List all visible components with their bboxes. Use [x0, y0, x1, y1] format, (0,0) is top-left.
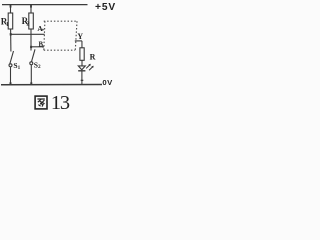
svg-text:0V: 0V	[102, 78, 113, 87]
LED emission arrow 2	[89, 66, 94, 71]
wire R2 bottom down to switch S2	[30, 29, 32, 51]
node junction LED-rail tick	[81, 80, 84, 81]
svg-text:+5V: +5V	[95, 2, 116, 13]
wire stub R1 to rail	[10, 5, 12, 13]
wire R1 bottom down to switch S1	[10, 29, 12, 52]
resistor R1	[8, 13, 13, 29]
wire S1 to bottom rail	[10, 67, 12, 85]
wire top +5V rail	[2, 4, 88, 6]
svg-text:B: B	[39, 42, 44, 49]
wire S2 to bottom rail	[30, 65, 32, 85]
node junction R2-rail	[30, 5, 32, 8]
node junction S2-rail	[30, 82, 32, 85]
LED emission arrow 1	[86, 64, 91, 69]
resistor R2	[29, 13, 34, 29]
switch S2 pivot circle	[30, 62, 33, 65]
wire R bottom to LED	[81, 60, 83, 66]
node junction S1-rail	[10, 82, 12, 85]
wire LED to bottom rail	[81, 72, 83, 85]
node junction A-branch on R1 wire	[10, 33, 12, 35]
svg-text:A: A	[37, 24, 43, 33]
wire stub R2 to rail	[30, 5, 32, 13]
svg-text:1: 1	[6, 21, 9, 28]
svg-text:2: 2	[38, 64, 41, 70]
svg-text:2: 2	[26, 21, 29, 28]
wire node A branch horizontal	[11, 33, 45, 35]
svg-text:1: 1	[18, 65, 21, 71]
switch S2 blade	[32, 49, 36, 61]
LED cathode bar	[78, 70, 85, 72]
wire bottom 0V rail	[1, 84, 102, 86]
svg-text:R: R	[90, 53, 96, 62]
black box dashed rectangle	[44, 21, 77, 50]
node B terminal dot	[42, 46, 44, 48]
node junction B-branch on R2 wire	[30, 46, 32, 48]
wire output Y vertical down to resistor R	[81, 41, 83, 48]
node junction R1-rail	[10, 5, 12, 8]
LED D1 triangle	[78, 66, 85, 70]
switch S1 pivot circle	[9, 64, 12, 67]
wire node B branch horizontal	[31, 46, 43, 48]
resistor R	[80, 48, 84, 61]
caption tu glyph (figure)	[35, 96, 47, 109]
svg-text:Y: Y	[77, 32, 83, 41]
svg-text:13: 13	[51, 92, 70, 112]
node A terminal dot	[42, 29, 44, 31]
wire output Y horizontal from box	[75, 40, 82, 42]
switch S1 blade	[10, 51, 14, 64]
